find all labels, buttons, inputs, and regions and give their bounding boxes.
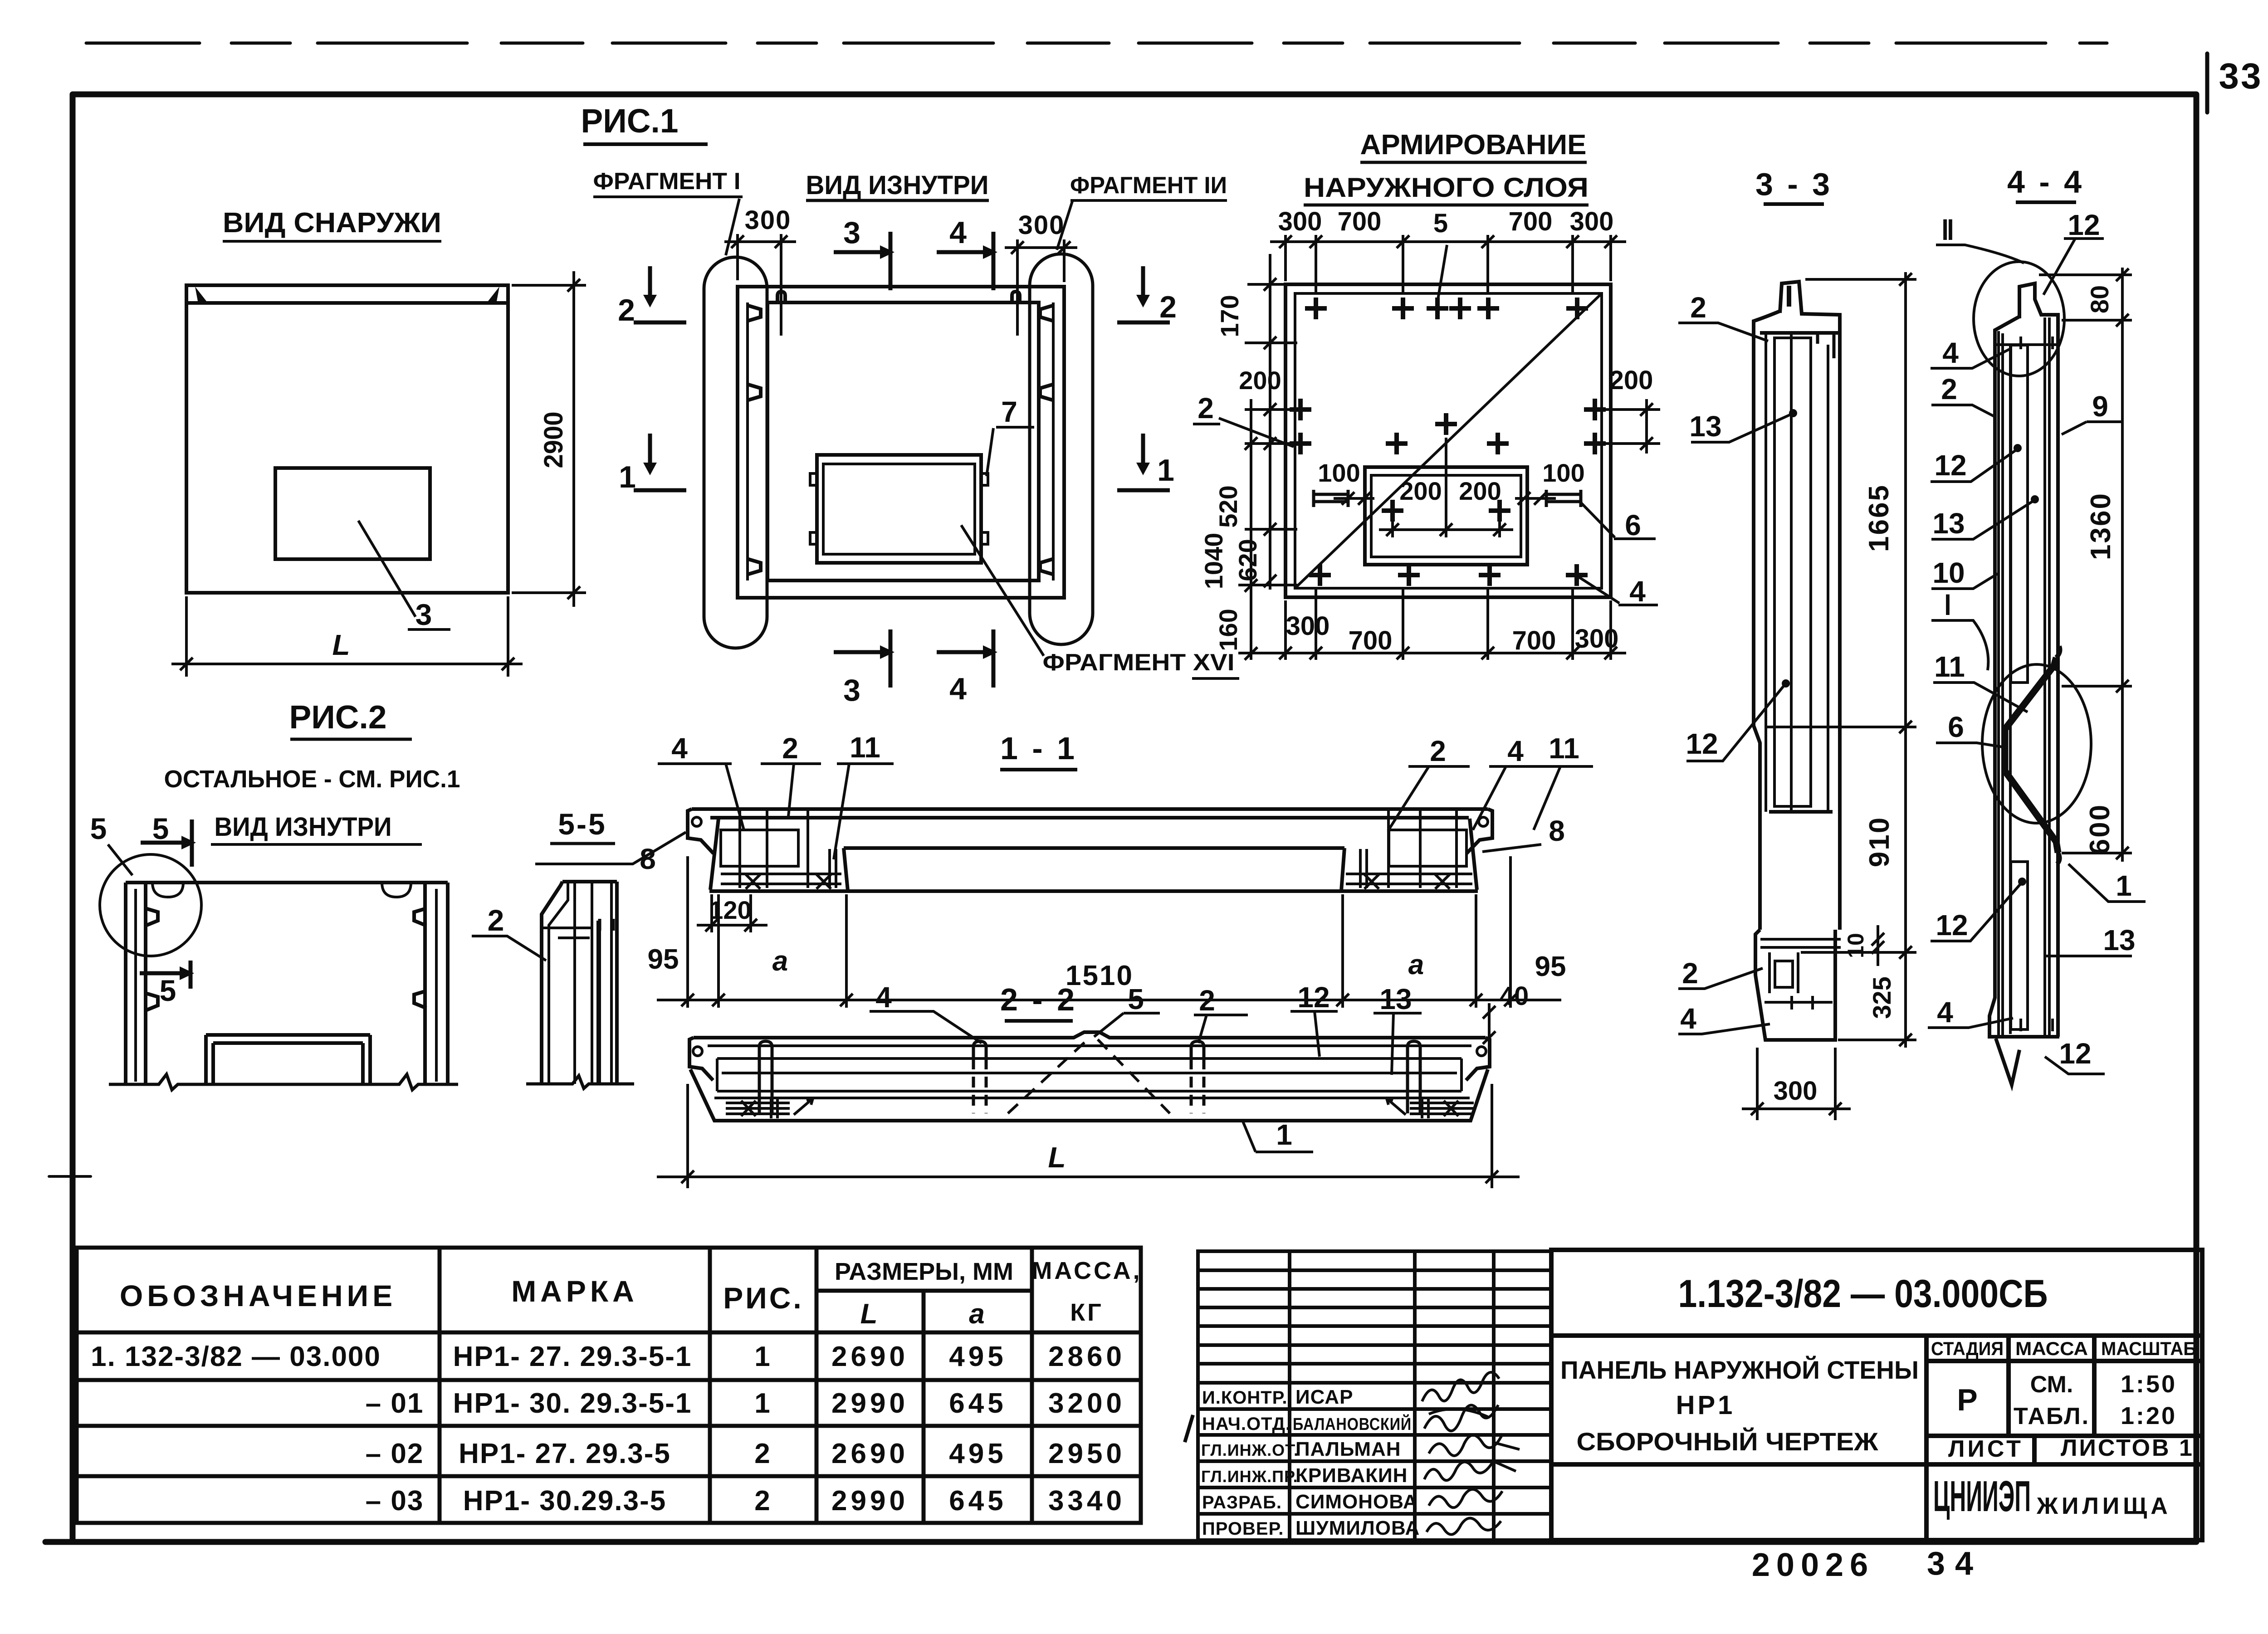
svg-text:12: 12 bbox=[1936, 909, 1968, 941]
title block bbox=[1551, 1250, 2202, 1540]
dim 300 right line bbox=[1005, 246, 1077, 249]
thick inner bar bbox=[596, 921, 601, 1084]
panel outline bbox=[186, 285, 508, 593]
label 4 underline+leader bbox=[658, 764, 744, 830]
dim 300 right extensions bbox=[1016, 239, 1019, 336]
thin row lines bbox=[1198, 1268, 1551, 1272]
vertical a bbox=[573, 882, 576, 1084]
left cage pair bbox=[830, 849, 836, 888]
svg-text:2: 2 bbox=[1198, 392, 1214, 424]
svg-text:300: 300 bbox=[1278, 207, 1322, 236]
svg-text:1 - 1: 1 - 1 bbox=[1000, 731, 1077, 766]
slash mark bbox=[1185, 1415, 1193, 1442]
section mark 2 right bbox=[1117, 266, 1170, 322]
svg-text:4: 4 bbox=[1507, 735, 1524, 767]
window opening bbox=[275, 468, 430, 559]
svg-text:12: 12 bbox=[2068, 209, 2100, 241]
svg-text:5: 5 bbox=[1433, 209, 1448, 238]
вид изнутри underline bbox=[211, 843, 422, 846]
top dashed separator line bbox=[86, 42, 2107, 45]
leader for label 3 bbox=[358, 521, 415, 617]
z-bar hook bottom bbox=[2057, 853, 2060, 864]
svg-text:2: 2 bbox=[1941, 373, 1957, 405]
label 12 leader bbox=[1686, 684, 1785, 761]
dim L extension right bbox=[507, 596, 509, 677]
svg-text:И.КОНТР.: И.КОНТР. bbox=[1202, 1388, 1288, 1408]
window tab right top bbox=[981, 473, 988, 485]
svg-text:2690: 2690 bbox=[831, 1438, 909, 1469]
svg-text:325: 325 bbox=[1867, 976, 1896, 1019]
svg-text:12: 12 bbox=[2059, 1037, 2091, 1070]
svg-text:11: 11 bbox=[1934, 650, 1965, 683]
right cap hole bbox=[1479, 817, 1488, 826]
table row line 1 bbox=[77, 1378, 1141, 1382]
table header sub-line for sizes bbox=[816, 1289, 1032, 1293]
table outer box bbox=[77, 1248, 1141, 1523]
svg-text:НР1- 30. 29.3-5-1: НР1- 30. 29.3-5-1 bbox=[453, 1388, 692, 1419]
bottom dim line bbox=[1270, 652, 1626, 654]
main dim ticks bbox=[681, 994, 694, 1006]
svg-text:МАССА,: МАССА, bbox=[1031, 1257, 1142, 1284]
4-4 underline bbox=[2016, 200, 2076, 204]
bottom edge bbox=[690, 1069, 1488, 1121]
reinforcement panel inner bbox=[1295, 293, 1602, 588]
right rib block edges bbox=[1341, 819, 1477, 891]
left chain ticks bbox=[1264, 278, 1276, 291]
specification table bottom-left bbox=[77, 1248, 1141, 1523]
vertical c bbox=[610, 882, 613, 1084]
section mark 1 right bbox=[1117, 434, 1170, 490]
second line bbox=[708, 1044, 1471, 1047]
left end cap bbox=[689, 1038, 713, 1080]
svg-text:МАСШТАБ: МАСШТАБ bbox=[2101, 1338, 2196, 1359]
svg-text:700: 700 bbox=[1512, 626, 1556, 655]
svg-text:2 - 2: 2 - 2 bbox=[1000, 982, 1077, 1017]
svg-text:13: 13 bbox=[2103, 924, 2135, 956]
svg-text:2: 2 bbox=[754, 1438, 772, 1469]
left cap hole bbox=[693, 1047, 702, 1056]
right end cap bbox=[1466, 1038, 1490, 1080]
svg-text:Р: Р bbox=[1957, 1383, 1977, 1417]
hook inner stem bbox=[1787, 286, 1791, 307]
svg-text:РИС.: РИС. bbox=[723, 1281, 803, 1315]
label 8 left leader bbox=[535, 832, 686, 864]
label 12 underline+leader bbox=[1290, 1011, 1338, 1057]
notch right 1 bbox=[414, 908, 426, 926]
label 11 right underline+leader bbox=[1534, 766, 1593, 830]
svg-text:ГЛ.ИНЖ.ОТ.: ГЛ.ИНЖ.ОТ. bbox=[1201, 1441, 1299, 1459]
svg-text:Ⅱ: Ⅱ bbox=[1941, 215, 1955, 245]
label 2 underline+leader bbox=[1194, 1015, 1248, 1043]
leader 2 left bbox=[1219, 418, 1294, 447]
label 2 underline bbox=[1193, 423, 1220, 425]
svg-text:5: 5 bbox=[152, 812, 169, 845]
svg-text:ШУМИЛОВА: ШУМИЛОВА bbox=[1295, 1517, 1420, 1539]
dim chain right extensions bbox=[2039, 273, 2132, 276]
table column рис/L bbox=[815, 1248, 819, 1523]
svg-text:a: a bbox=[772, 946, 788, 977]
svg-text:1:50: 1:50 bbox=[2121, 1371, 2177, 1398]
svg-text:НАЧ.ОТД.: НАЧ.ОТД. bbox=[1202, 1414, 1291, 1434]
detail circle 5 bbox=[100, 854, 201, 956]
leader 6 bbox=[1579, 501, 1615, 537]
right rib mid line bbox=[435, 889, 438, 1082]
dot 13 bbox=[2031, 495, 2039, 503]
svg-text:2990: 2990 bbox=[831, 1485, 909, 1517]
svg-text:2: 2 bbox=[782, 732, 798, 765]
svg-text:95: 95 bbox=[1535, 951, 1566, 982]
stamp стадия/масса divider bbox=[2006, 1336, 2011, 1436]
title block line under doc number bbox=[1551, 1333, 2202, 1338]
svg-text:520: 520 bbox=[1214, 485, 1242, 527]
label 4 underline bbox=[1618, 604, 1658, 606]
svg-text:495: 495 bbox=[949, 1438, 1007, 1469]
svg-text:1040: 1040 bbox=[1199, 533, 1228, 590]
section mark 3 top bbox=[834, 232, 890, 290]
dim 120 line bbox=[697, 924, 767, 927]
svg-text:МАССА: МАССА bbox=[2015, 1338, 2088, 1359]
label 13 leader bbox=[1691, 414, 1793, 442]
right cage inner rect bbox=[1389, 830, 1466, 866]
bottom dim extensions bbox=[1284, 600, 1287, 660]
svg-text:34: 34 bbox=[1927, 1546, 1983, 1582]
svg-text:4: 4 bbox=[949, 672, 967, 706]
notch left 2 bbox=[146, 993, 158, 1010]
bottom box bbox=[1775, 961, 1793, 987]
svg-text:80: 80 bbox=[2085, 285, 2114, 313]
right rib inner bbox=[423, 883, 427, 1084]
svg-text:2690: 2690 bbox=[831, 1341, 909, 1372]
svg-text:2: 2 bbox=[618, 293, 635, 327]
svg-text:ОСТАЛЬНОЕ - СМ. РИС.1: ОСТАЛЬНОЕ - СМ. РИС.1 bbox=[164, 766, 460, 793]
svg-text:11: 11 bbox=[1549, 732, 1579, 765]
top dim ticks bbox=[1279, 235, 1292, 248]
svg-text:2: 2 bbox=[1682, 957, 1698, 990]
dim 120 extensions bbox=[710, 894, 713, 932]
svg-text:– 01: – 01 bbox=[366, 1388, 424, 1419]
dim L tick left bbox=[180, 658, 193, 670]
bottom anchor line bbox=[1765, 1001, 1833, 1004]
label 12 leader bbox=[1931, 449, 2018, 482]
mesh rect bbox=[1774, 338, 1811, 806]
svg-text:ЖИЛИЩА: ЖИЛИЩА bbox=[2036, 1493, 2171, 1519]
label 13 leader bbox=[1931, 500, 2034, 539]
label 4 underline+leader bbox=[870, 1011, 982, 1043]
label 4 top leader bbox=[1931, 349, 2009, 368]
slab top line bbox=[692, 807, 1488, 811]
window inner bbox=[1371, 475, 1521, 557]
армирование underline bbox=[1360, 161, 1587, 164]
left rib outer bbox=[124, 883, 127, 1084]
section mark 5 upper leader to circle bbox=[108, 844, 132, 875]
svg-text:2860: 2860 bbox=[1048, 1341, 1125, 1372]
inner vertical b bbox=[1827, 345, 1829, 812]
svg-text:300: 300 bbox=[1570, 207, 1614, 236]
right cage crosses bbox=[1364, 874, 1450, 889]
dim 2900 line bbox=[572, 271, 575, 607]
inner pair left bbox=[1999, 331, 2003, 1037]
upper mesh rect bbox=[2011, 345, 2028, 683]
window tab left top bbox=[810, 473, 817, 485]
svg-text:2: 2 bbox=[1159, 290, 1177, 324]
inner hook line bbox=[549, 881, 568, 1084]
svg-text:2950: 2950 bbox=[1048, 1438, 1125, 1469]
svg-text:200: 200 bbox=[1239, 366, 1281, 395]
svg-text:РИС.1: РИС.1 bbox=[581, 102, 679, 140]
window U right legs bbox=[363, 1035, 370, 1084]
inner band bottom bbox=[717, 1090, 1461, 1093]
svg-text:ПАЛЬМАН: ПАЛЬМАН bbox=[1295, 1438, 1401, 1460]
svg-text:КРИВАКИН: КРИВАКИН bbox=[1295, 1464, 1408, 1487]
dim line bbox=[1904, 272, 1907, 1048]
left end mesh bbox=[726, 1098, 813, 1118]
tie bar left bbox=[1314, 490, 1348, 507]
anchor tips bottom bbox=[2021, 1019, 2053, 1031]
svg-text:ОБОЗНАЧЕНИЕ: ОБОЗНАЧЕНИЕ bbox=[120, 1279, 396, 1312]
section mark 2 left bbox=[634, 266, 686, 322]
left edge upper bbox=[1754, 311, 1780, 930]
label 1 underline+leader bbox=[1242, 1119, 1313, 1152]
label 4 lower leader bbox=[1928, 1018, 2013, 1028]
left edge bbox=[1989, 317, 2059, 1037]
notch right 2 bbox=[414, 991, 426, 1008]
svg-text:РИС.2: РИС.2 bbox=[289, 699, 387, 736]
flexible tie z-bar bbox=[2005, 658, 2058, 853]
dim L line bbox=[171, 663, 523, 665]
svg-text:СМ.: СМ. bbox=[2030, 1371, 2073, 1398]
svg-text:1665: 1665 bbox=[1863, 484, 1895, 552]
svg-text:6: 6 bbox=[1625, 509, 1641, 541]
dashed brace bbox=[1008, 1039, 1170, 1113]
лист row bottom line bbox=[1926, 1462, 2202, 1467]
inner line bbox=[2009, 346, 2012, 1034]
dim line bbox=[2121, 268, 2124, 862]
window outer bbox=[817, 455, 981, 563]
left cage verticals bbox=[740, 810, 808, 888]
notch right top bbox=[1040, 306, 1052, 321]
vertical b bbox=[591, 882, 593, 1084]
tie bar right bbox=[1546, 490, 1581, 507]
name row lines bbox=[1198, 1407, 1551, 1411]
ground break bbox=[526, 1076, 634, 1088]
loop 1 bbox=[759, 1041, 772, 1113]
right rib outer bbox=[446, 883, 450, 1084]
svg-text:3340: 3340 bbox=[1048, 1485, 1125, 1517]
reinforcement panel outer bbox=[1286, 284, 1611, 597]
dim 300 bottom bbox=[1756, 1048, 1759, 1120]
svg-text:3: 3 bbox=[843, 673, 860, 707]
dim ticks bbox=[2116, 268, 2129, 281]
top dim line bbox=[1270, 240, 1626, 243]
фрагмент XVI leader bbox=[961, 525, 1044, 656]
svg-text:495: 495 bbox=[949, 1341, 1007, 1372]
notch left bottom bbox=[748, 559, 761, 574]
svg-text:5: 5 bbox=[1128, 983, 1144, 1015]
right cap hole bbox=[1477, 1047, 1486, 1056]
right 200 dim bbox=[1606, 408, 1660, 411]
1-1 underline bbox=[1000, 768, 1077, 771]
lifting loop left bbox=[777, 292, 785, 302]
dim 300 left extensions bbox=[736, 234, 739, 280]
top edge bbox=[562, 880, 617, 883]
svg-text:3: 3 bbox=[843, 215, 860, 250]
svg-text:11: 11 bbox=[850, 731, 880, 764]
svg-text:10: 10 bbox=[1932, 556, 1965, 589]
svg-text:Ⅰ: Ⅰ bbox=[1944, 590, 1952, 620]
svg-text:– 02: – 02 bbox=[366, 1438, 424, 1469]
notch right bottom bbox=[1040, 559, 1052, 574]
svg-text:ПАНЕЛЬ НАРУЖНОЙ СТЕНЫ: ПАНЕЛЬ НАРУЖНОЙ СТЕНЫ bbox=[1560, 1356, 1919, 1384]
bottom tail bbox=[1996, 1039, 2019, 1085]
svg-text:200: 200 bbox=[1399, 477, 1442, 505]
svg-text:200: 200 bbox=[1609, 366, 1653, 395]
svg-text:9: 9 bbox=[2092, 390, 2108, 423]
svg-text:2: 2 bbox=[1430, 735, 1446, 767]
svg-text:1:20: 1:20 bbox=[2121, 1402, 2177, 1429]
label 3 underline bbox=[408, 628, 450, 631]
panel outline bbox=[738, 287, 1064, 598]
svg-text:3200: 3200 bbox=[1048, 1388, 1125, 1419]
label 2 bottom leader bbox=[1678, 968, 1763, 989]
рис.1 underline bbox=[583, 142, 708, 146]
notch left mid bbox=[748, 385, 761, 400]
svg-text:6: 6 bbox=[1948, 711, 1964, 743]
svg-text:5-5: 5-5 bbox=[558, 807, 606, 841]
z-bar hook top bbox=[2056, 646, 2060, 658]
dot 12 lower bbox=[2018, 878, 2026, 886]
svg-text:ВИД СНАРУЖИ: ВИД СНАРУЖИ bbox=[223, 207, 441, 239]
svg-text:8: 8 bbox=[1549, 815, 1565, 847]
фрагмент I underline bbox=[593, 195, 743, 198]
left extensions horizontals bbox=[1247, 283, 1284, 286]
svg-text:700: 700 bbox=[1349, 626, 1393, 655]
diagonal bbox=[1296, 294, 1601, 587]
dim L extension left bbox=[185, 596, 188, 677]
svg-text:АРМИРОВАНИЕ: АРМИРОВАНИЕ bbox=[1360, 129, 1587, 161]
svg-text:5: 5 bbox=[90, 812, 107, 845]
right band mid line bbox=[1052, 302, 1055, 580]
anchor tips top bbox=[2021, 337, 2053, 349]
top anchor line bbox=[1995, 343, 2058, 346]
svg-text:20026: 20026 bbox=[1752, 1547, 1874, 1583]
svg-text:1: 1 bbox=[2116, 869, 2132, 902]
label 5 underline+leader bbox=[1094, 1013, 1160, 1037]
window tab left bottom bbox=[810, 532, 817, 544]
svg-text:3 - 3: 3 - 3 bbox=[1755, 166, 1833, 202]
svg-text:1: 1 bbox=[1276, 1118, 1292, 1151]
left stadium fragment I bbox=[704, 257, 767, 648]
svg-text:33: 33 bbox=[2219, 56, 2263, 96]
table column марка/рис bbox=[708, 1248, 712, 1523]
anchor hook tips bbox=[1818, 333, 1834, 358]
svg-text:13: 13 bbox=[1689, 410, 1721, 443]
section mark 5 lower bar bbox=[140, 961, 191, 989]
svg-text:2900: 2900 bbox=[539, 412, 568, 468]
window 200 200 dim bbox=[1391, 522, 1394, 537]
3-3 underline bbox=[1764, 202, 1824, 206]
loop 3 bbox=[1191, 1041, 1204, 1058]
label 6 underline bbox=[1614, 537, 1656, 540]
outer contour with hook bbox=[2019, 283, 2058, 1037]
label 6 leader bbox=[1936, 743, 2005, 747]
notch left top bbox=[748, 306, 761, 321]
svg-text:ИСАР: ИСАР bbox=[1295, 1386, 1353, 1408]
svg-text:ЛИСТОВ 1: ЛИСТОВ 1 bbox=[2061, 1435, 2194, 1461]
svg-text:8: 8 bbox=[640, 843, 656, 875]
table row line 3 bbox=[77, 1474, 1141, 1478]
dim 2900 extension top bbox=[512, 284, 586, 287]
inner band mid bbox=[722, 1072, 1457, 1074]
loop 4 bbox=[1408, 1041, 1420, 1113]
inner vertical a bbox=[1765, 333, 1767, 812]
stamp header bottom line bbox=[1926, 1359, 2202, 1363]
signature table outer bbox=[1198, 1251, 1551, 1540]
svg-text:СТАДИЯ: СТАДИЯ bbox=[1931, 1338, 2004, 1359]
top line with bump bbox=[694, 1032, 1486, 1038]
window outer bbox=[1365, 467, 1527, 565]
title block outer box bbox=[1551, 1250, 2202, 1540]
left cap hole bbox=[692, 817, 701, 826]
right cage verticals bbox=[1388, 810, 1457, 888]
label 10 leader bbox=[1931, 574, 1998, 589]
dim ticks bbox=[1899, 273, 1912, 286]
svg-text:95: 95 bbox=[648, 944, 679, 975]
dim 300 left ticks bbox=[731, 235, 744, 248]
label 1 right leader bbox=[2068, 864, 2146, 902]
panel inner rect bbox=[767, 302, 1039, 580]
фрагмент III underline bbox=[1070, 199, 1227, 202]
left cage crosses bbox=[746, 874, 831, 889]
5-5 underline bbox=[550, 842, 615, 845]
top anchor line bbox=[1760, 331, 1838, 335]
inner horizontal 2 bbox=[558, 937, 590, 939]
svg-text:13: 13 bbox=[1379, 983, 1412, 1015]
anchor tips bottom bbox=[1792, 996, 1813, 1010]
section mark 3 bottom bbox=[834, 629, 890, 688]
dim 300 left line bbox=[724, 240, 796, 243]
loops bbox=[759, 1041, 1420, 1113]
svg-text:ФРАГМЕНТ IИ: ФРАГМЕНТ IИ bbox=[1070, 172, 1227, 199]
label 9 leader bbox=[2062, 422, 2123, 434]
section mark 1 left bbox=[634, 434, 686, 490]
left cage horizontals bbox=[721, 874, 841, 884]
svg-text:НР1- 27. 29.3-5: НР1- 27. 29.3-5 bbox=[459, 1438, 671, 1469]
left end cap bbox=[688, 809, 714, 854]
svg-text:5: 5 bbox=[160, 974, 176, 1007]
inner pair right bbox=[2045, 317, 2049, 1037]
top edge bbox=[126, 881, 448, 884]
label 11 underline+leader bbox=[834, 764, 894, 859]
dim 40 bbox=[1488, 1003, 1491, 1049]
svg-text:ЛИСТ: ЛИСТ bbox=[1948, 1436, 2024, 1462]
right end cap bbox=[1466, 809, 1492, 854]
dim L ticks bbox=[681, 1171, 694, 1183]
table row line under header bbox=[77, 1331, 1141, 1335]
frame bottom overhang bbox=[45, 1539, 75, 1545]
svg-text:2990: 2990 bbox=[831, 1388, 909, 1419]
loop 2 bbox=[973, 1041, 986, 1058]
label 13 underline+leader bbox=[1374, 1013, 1422, 1075]
inner band top bbox=[717, 1057, 1461, 1060]
фрагмент I leader bbox=[726, 199, 739, 255]
title block line under name bbox=[1551, 1462, 1926, 1467]
svg-text:645: 645 bbox=[949, 1388, 1007, 1419]
bottom line full bbox=[709, 889, 1478, 893]
stamp values bottom line bbox=[1926, 1434, 2202, 1438]
svg-text:КГ: КГ bbox=[1070, 1299, 1104, 1326]
dim L extensions bbox=[686, 1084, 689, 1188]
table column L/a bbox=[922, 1291, 926, 1523]
